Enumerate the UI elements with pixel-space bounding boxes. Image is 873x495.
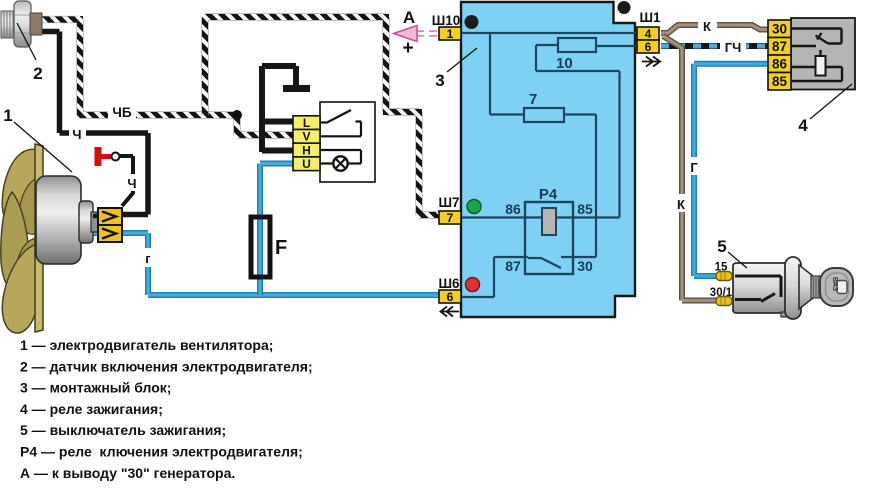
svg-text:85: 85 [577, 201, 593, 217]
lamp symbol [333, 156, 347, 170]
pin V [293, 130, 320, 144]
wire ЧБ sensor to junction (striped black/white) [40, 16, 237, 115]
svg-text:2: 2 [33, 64, 42, 83]
wire ГЧ Ш1-6 to relay 87 (blue/black striped) [661, 43, 768, 49]
motor connector [98, 208, 122, 242]
pin H [293, 143, 320, 157]
svg-text:1 — электродвигатель вентилято: 1 — электродвигатель вентилятора; [20, 337, 273, 353]
pin Ш1-4 [637, 27, 659, 40]
relay P4 contact [528, 258, 561, 268]
ignition relay 4 body [791, 18, 855, 90]
ignition switch flange [785, 257, 801, 319]
svg-text:5 — выключатель зажигания;: 5 — выключатель зажигания; [20, 422, 226, 438]
lamp circuit inside [320, 150, 361, 164]
callout 2 [17, 23, 36, 60]
svg-text:Ш1: Ш1 [639, 10, 661, 25]
svg-text:Г: Г [690, 160, 698, 175]
label г [141, 248, 156, 267]
block internal wire Ш7-7 to relay coil 86/85 [461, 216, 620, 218]
motor neck [79, 201, 93, 243]
ignition switch ribbed shaft [811, 276, 820, 298]
block internal wire fuse 10 to relay 85 [536, 45, 620, 218]
block LED green [467, 200, 481, 214]
svg-text:86: 86 [772, 57, 788, 72]
svg-text:1: 1 [3, 106, 12, 125]
block hole top-right [618, 1, 631, 14]
svg-text:Ч: Ч [127, 176, 136, 191]
svg-text:U: U [302, 157, 311, 171]
wire ЧБ junction to V pin [234, 112, 295, 135]
svg-text:Р4: Р4 [539, 186, 558, 203]
svg-text:7: 7 [529, 91, 537, 108]
relay 4 pin 30 [768, 20, 791, 38]
motor body [36, 176, 81, 264]
svg-text:6: 6 [645, 40, 652, 54]
svg-text:+: + [402, 38, 413, 59]
mounting block 3 body [461, 2, 635, 317]
fan blade lower-inner [16, 238, 36, 287]
svg-text:ЧБ: ЧБ [112, 105, 131, 120]
fuse F [251, 217, 270, 277]
label ГЧ [720, 38, 746, 54]
svg-text:F: F [275, 237, 287, 259]
sensor 2 hex nut [14, 1, 31, 47]
svg-text:3 — монтажный блок;: 3 — монтажный блок; [20, 380, 171, 396]
fan blade top [2, 149, 38, 227]
fan blade upper-inner [19, 178, 37, 234]
relay 4 pin 86 [768, 55, 791, 73]
svg-text:30: 30 [772, 22, 787, 37]
block internal wire fuse 7 to relay 30 [561, 115, 596, 258]
block internal wire Ш10-1 to Ш1-4 [461, 32, 637, 34]
sensor 2 connector (brown) [30, 13, 42, 35]
label К (vertical) [674, 194, 690, 212]
relay 4 coil [791, 50, 842, 81]
svg-text:ВАЗ: ВАЗ [831, 277, 838, 292]
fan blade left [1, 192, 29, 291]
block LED red [466, 278, 480, 292]
arrow out symbol below Ш1 [642, 57, 661, 67]
svg-text:5: 5 [717, 237, 726, 256]
svg-text:H: H [302, 143, 311, 157]
svg-text:К: К [703, 19, 711, 34]
wire К Ш1-4 to ignition switch 30/1 (brown) [663, 36, 719, 301]
pin L [293, 116, 320, 130]
svg-text:2 — датчик включения электродв: 2 — датчик включения электродвигателя; [20, 358, 313, 374]
svg-text:10: 10 [556, 55, 573, 72]
wire ЧБ branch up to top run [202, 14, 441, 215]
pin Ш1-6 [637, 40, 659, 53]
svg-text:30: 30 [577, 258, 593, 274]
svg-text:87: 87 [505, 258, 521, 274]
pin U [293, 157, 320, 171]
svg-text:г: г [145, 251, 151, 266]
motor wire stubs [93, 214, 101, 219]
svg-text:Ч: Ч [72, 127, 81, 142]
svg-text:85: 85 [772, 74, 788, 89]
wire blue U pin through fuse F [260, 164, 295, 296]
label К (top) [698, 17, 717, 33]
wire blue relay 86 to ignition switch 15 [694, 64, 768, 276]
svg-text:87: 87 [772, 39, 787, 54]
svg-text:Ш7: Ш7 [438, 195, 459, 210]
wire to plug circle (black thin) [118, 156, 133, 206]
wire A dashed pink to Ш10-1 [416, 30, 440, 37]
ignition switch contacts [735, 276, 781, 302]
label Ч (sensor wire) [69, 125, 86, 141]
block internal wire Ш1-6 to fuse 10 [596, 45, 637, 47]
svg-text:Р4 — реле ключения электродви: Р4 — реле ключения электродвигателя; [20, 444, 303, 460]
relay 4 pin 85 [768, 73, 791, 91]
svg-text:4 — реле зажигания;: 4 — реле зажигания; [20, 401, 163, 417]
svg-text:7: 7 [447, 211, 454, 225]
plug symbol (red) [95, 147, 102, 166]
ignition key head [820, 268, 853, 306]
block internal wire branch to fuse 7 [490, 33, 524, 115]
svg-text:Ш10: Ш10 [432, 13, 461, 28]
svg-text:6: 6 [447, 290, 454, 304]
ground symbol [283, 85, 310, 92]
svg-text:К: К [677, 197, 685, 212]
arrow A [394, 26, 418, 42]
wire К Ш1-4 to relay 30 (brown) [661, 25, 768, 33]
junction dot ЧБ [232, 110, 242, 120]
switch block with pins L V H U [320, 102, 375, 182]
fuse 7 [524, 108, 564, 122]
wire Г motor to fuse junction and Ш6 (blue) [88, 233, 440, 295]
block internal wire relay 87 to Ш6-6 [461, 257, 528, 297]
ignition switch cone [799, 265, 813, 309]
svg-text:А — к выводу "30" генератора.: А — к выводу "30" генератора. [20, 465, 235, 481]
svg-text:L: L [303, 116, 310, 130]
fuse 10 [558, 38, 596, 52]
svg-text:4: 4 [798, 116, 808, 135]
label Г [687, 157, 702, 175]
wire Ч sensor to motor connector (black) [42, 32, 148, 215]
switch contact inside [320, 110, 351, 123]
svg-text:А: А [403, 8, 415, 27]
relay 4 contact [791, 29, 842, 47]
svg-text:86: 86 [505, 201, 521, 217]
relay 4 pin 87 [768, 38, 791, 56]
ignition key hole [837, 281, 847, 294]
ignition switch 5 body [733, 263, 789, 313]
svg-text:Ш6: Ш6 [438, 276, 460, 291]
fan blade center plane [35, 144, 43, 332]
svg-text:4: 4 [645, 27, 652, 41]
arrow out symbol below Ш6 [441, 307, 460, 317]
label Ч (plug wire) [125, 174, 141, 191]
motor shaft stub [91, 212, 98, 232]
block hole top-left [465, 15, 479, 29]
ground wire from pins L and H [262, 66, 296, 152]
fan blade bottom [2, 244, 38, 333]
sensor 2 thread [1, 11, 16, 38]
svg-text:ГЧ: ГЧ [725, 40, 742, 55]
svg-text:3: 3 [435, 71, 444, 90]
relay P4 box [525, 202, 573, 274]
label ЧБ [108, 103, 136, 120]
ignition switch bottom tab [781, 312, 790, 317]
svg-text:V: V [302, 130, 310, 144]
relay P4 coil [542, 208, 556, 235]
svg-text:1: 1 [447, 27, 454, 41]
